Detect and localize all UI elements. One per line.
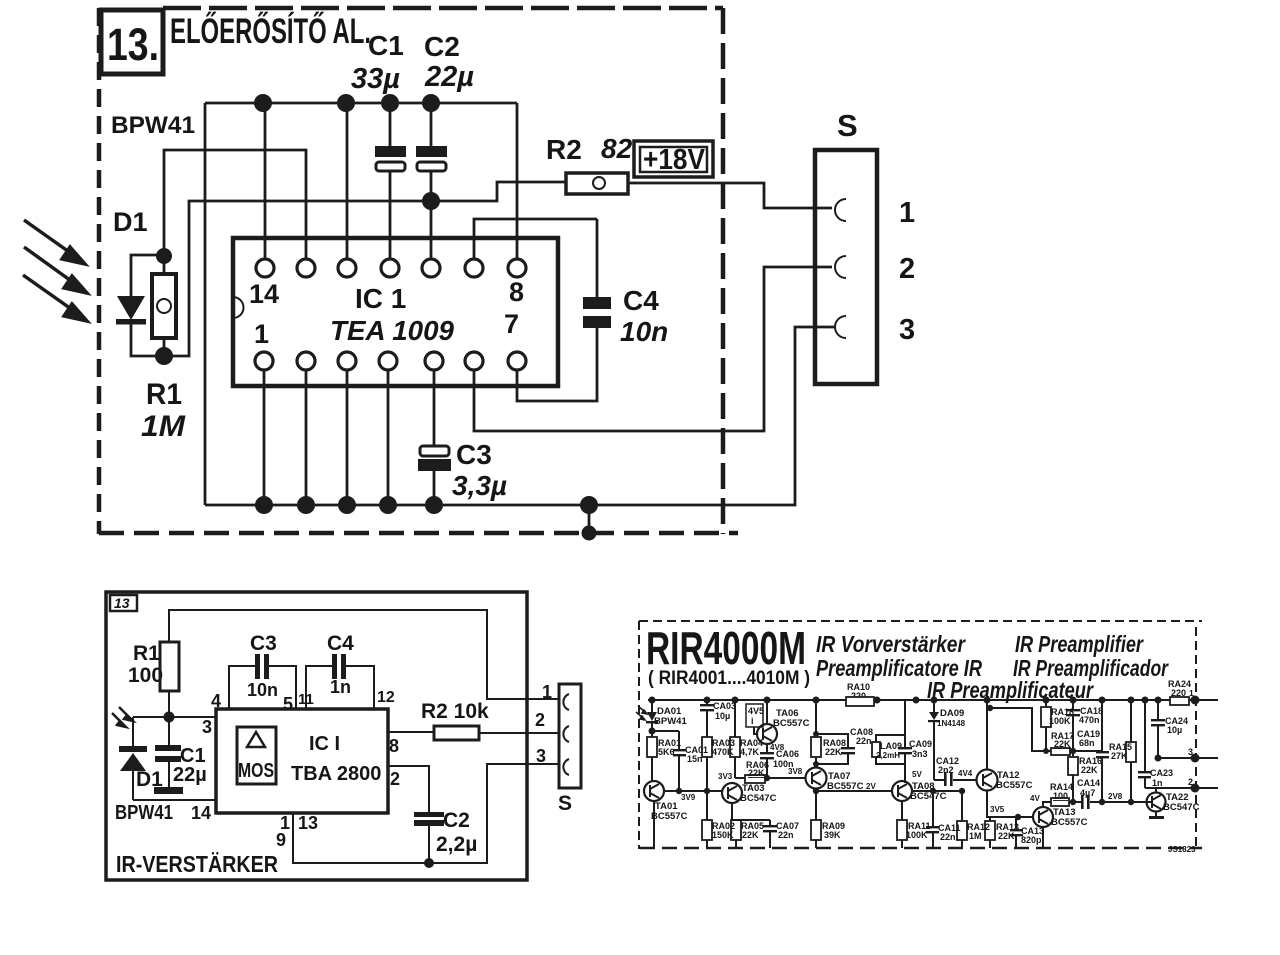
svg-text:BC557C: BC557C xyxy=(651,811,688,822)
svg-text:C3: C3 xyxy=(250,632,277,655)
photodiode D1 xyxy=(132,717,134,746)
resistor RA11 100K xyxy=(901,801,903,820)
svg-text:1: 1 xyxy=(1189,688,1194,698)
svg-text:BC547C: BC547C xyxy=(1163,802,1200,813)
ground bus with pin3 branch xyxy=(205,327,835,505)
svg-text:BPW41: BPW41 xyxy=(111,112,195,139)
svg-text:4V4: 4V4 xyxy=(958,769,973,778)
svg-text:14: 14 xyxy=(249,279,279,309)
svg-text:3n3: 3n3 xyxy=(912,749,928,759)
junction node below R1 xyxy=(155,347,173,365)
capacitor CA13 820p xyxy=(1015,817,1017,829)
transistor TA08 BC547C xyxy=(892,781,912,801)
resistor RA03 470K xyxy=(702,737,712,757)
svg-text:100: 100 xyxy=(128,664,163,687)
capacitor C2 2,2u xyxy=(414,812,444,817)
svg-text:15n: 15n xyxy=(687,754,703,764)
svg-text:2: 2 xyxy=(535,710,545,730)
connector pin 1 xyxy=(835,199,846,221)
wire pin9 to C4 xyxy=(474,219,597,259)
svg-text:2n2: 2n2 xyxy=(938,765,954,775)
svg-text:IR-VERSTÄRKER: IR-VERSTÄRKER xyxy=(116,851,278,877)
svg-text:ELŐERŐSÍTŐ AL.: ELŐERŐSÍTŐ AL. xyxy=(170,11,371,51)
svg-text:R2: R2 xyxy=(546,134,582,165)
emitter node TA07 xyxy=(815,788,817,820)
emitter TA12 to TA13 base xyxy=(987,790,1033,817)
svg-text:S: S xyxy=(558,792,572,815)
svg-text:C3: C3 xyxy=(456,439,492,470)
wire base line to pin 3 xyxy=(133,716,216,718)
transistor TA01 BC557C xyxy=(644,781,664,801)
connector pin 2 xyxy=(563,726,569,742)
wire D1 top to IC pin 13 xyxy=(164,150,306,259)
svg-text:10µ: 10µ xyxy=(1167,725,1182,735)
wire R1 bottom to R2 line xyxy=(164,182,566,356)
wire pin2 to C2 xyxy=(388,766,429,814)
svg-text:R1: R1 xyxy=(146,378,182,411)
svg-text:CA06: CA06 xyxy=(776,749,799,759)
ground bus junction dots xyxy=(255,496,273,514)
junction dot under R1 xyxy=(164,712,175,723)
svg-text:MOS: MOS xyxy=(238,760,274,782)
svg-text:13.: 13. xyxy=(107,19,159,70)
junction dots on rail xyxy=(254,94,272,112)
svg-text:BC557C: BC557C xyxy=(1051,817,1088,828)
svg-text:22n: 22n xyxy=(778,830,794,840)
transistor TA13 BC557C xyxy=(1033,807,1053,827)
transistor TA03 BC547C xyxy=(722,783,742,803)
capacitor CA19 68n label xyxy=(1070,748,1076,754)
node: top supply rail xyxy=(205,102,517,105)
photodiode DA01 BPW41 xyxy=(636,706,647,720)
svg-text:IR Vorverstärker: IR Vorverstärker xyxy=(816,631,966,657)
capacitor CA03 10u xyxy=(706,700,708,704)
svg-text:13: 13 xyxy=(298,813,318,833)
svg-text:C2: C2 xyxy=(443,809,470,832)
svg-text:IR Preamplifier: IR Preamplifier xyxy=(1015,631,1144,657)
svg-text:LA09: LA09 xyxy=(880,741,902,751)
emitter to RA05/CA07 xyxy=(732,803,770,820)
svg-text:22K: 22K xyxy=(825,747,842,757)
capacitor CA23 1n xyxy=(1144,700,1146,771)
svg-text:1: 1 xyxy=(542,682,552,702)
wire pin14 to rail xyxy=(264,103,267,259)
svg-text:4V: 4V xyxy=(1030,794,1040,803)
output pin 1 xyxy=(1191,696,1200,705)
svg-text:3,3µ: 3,3µ xyxy=(452,470,507,501)
base bus to TA08 xyxy=(816,790,892,792)
connector pin 1 xyxy=(563,694,569,710)
capacitor CA18 470n xyxy=(1072,700,1074,709)
svg-text:DA09: DA09 xyxy=(940,708,964,719)
IC1 TEA1009 body xyxy=(233,238,558,386)
svg-text:1n: 1n xyxy=(330,677,351,697)
resistor RA18 100K xyxy=(1045,700,1047,707)
svg-text:22n: 22n xyxy=(856,736,872,746)
svg-text:1: 1 xyxy=(254,319,269,349)
svg-text:1n: 1n xyxy=(1152,778,1163,788)
figure number box 13. xyxy=(101,10,163,74)
svg-text:13: 13 xyxy=(114,595,130,611)
capacitor CA19 body xyxy=(1101,700,1103,751)
svg-text:+18V: +18V xyxy=(643,144,706,176)
svg-text:2,2mH: 2,2mH xyxy=(876,751,900,760)
svg-text:39K: 39K xyxy=(824,830,841,840)
resistor RA15 27K xyxy=(1130,700,1132,742)
wire TA08 to bias xyxy=(912,790,962,792)
connector pin 3 xyxy=(563,759,569,775)
capacitor CA06 100n xyxy=(766,744,768,752)
svg-text:R2 10k: R2 10k xyxy=(421,700,489,723)
svg-text:22K: 22K xyxy=(742,830,759,840)
transistor TA22 BC547C xyxy=(1147,793,1166,812)
wire left vertical (rail to ground bus) xyxy=(204,103,207,505)
svg-text:C4: C4 xyxy=(327,632,354,655)
transistor TA06 BC557C xyxy=(757,724,777,744)
svg-text:3V9: 3V9 xyxy=(681,793,696,802)
capacitor CA08 22n bypass xyxy=(816,734,848,747)
svg-text:100K: 100K xyxy=(1049,716,1071,726)
svg-text:10µ: 10µ xyxy=(715,711,730,721)
svg-text:3: 3 xyxy=(536,746,546,766)
svg-text:CA23: CA23 xyxy=(1150,768,1173,778)
resistor RA02 150K xyxy=(706,791,708,820)
resistor RA17 22K xyxy=(990,708,1051,751)
svg-text:CA03: CA03 xyxy=(713,701,736,711)
capacitor CA01 15n xyxy=(678,731,680,749)
svg-text:11: 11 xyxy=(298,691,314,708)
svg-text:22K: 22K xyxy=(748,768,765,778)
transistor TA12 BC557C xyxy=(977,770,998,791)
resistor RA14 100 xyxy=(1043,802,1051,807)
capacitor C3 xyxy=(420,446,449,456)
svg-text:BPW41: BPW41 xyxy=(654,716,687,727)
svg-text:2V8: 2V8 xyxy=(1108,792,1123,801)
IC bottom pin circles xyxy=(255,352,526,370)
ground stub to shield xyxy=(588,505,591,533)
svg-text:IC 1: IC 1 xyxy=(355,283,406,314)
resistor RA04 4,7K xyxy=(734,700,736,737)
svg-text:1: 1 xyxy=(899,197,915,229)
resistor RA06 22K xyxy=(735,777,745,779)
inductor LA09 2,2mH tank xyxy=(876,700,905,742)
svg-text:C4: C4 xyxy=(623,285,659,316)
resistor RA16 22K xyxy=(1068,757,1078,775)
IC top pin circles xyxy=(256,259,526,277)
svg-text:9: 9 xyxy=(276,830,286,850)
wire pin10 to R2 line xyxy=(430,201,433,259)
ground rail / bottom dashed xyxy=(640,847,1202,849)
svg-text:33µ: 33µ xyxy=(351,63,400,95)
svg-text:i: i xyxy=(751,716,754,726)
junction node above R1 xyxy=(156,248,172,264)
svg-text:14: 14 xyxy=(191,803,211,823)
base bus wire xyxy=(664,790,722,792)
svg-text:22n: 22n xyxy=(940,832,956,842)
svg-text:D1: D1 xyxy=(113,207,148,237)
svg-text:TEA 1009: TEA 1009 xyxy=(330,315,454,346)
wire to CA01 xyxy=(652,730,679,732)
svg-text:22K: 22K xyxy=(1081,765,1098,775)
connector S body xyxy=(559,684,581,788)
svg-text:3V8: 3V8 xyxy=(788,767,803,776)
svg-text:BC547C: BC547C xyxy=(910,791,947,802)
svg-text:1M: 1M xyxy=(141,410,186,443)
svg-text:IC I: IC I xyxy=(309,733,340,755)
svg-text:C2: C2 xyxy=(424,31,460,62)
svg-text:CA14: CA14 xyxy=(1077,778,1100,788)
resistor R1 xyxy=(163,256,166,274)
resistor RA01 5K6 xyxy=(647,737,657,757)
svg-text:3V3: 3V3 xyxy=(718,772,733,781)
node: top rail xyxy=(169,610,559,699)
svg-text:2: 2 xyxy=(1188,777,1193,787)
resistor RA13 22K xyxy=(989,817,991,821)
svg-text:CA09: CA09 xyxy=(909,739,932,749)
svg-text:S: S xyxy=(837,108,858,143)
output pin 3 xyxy=(1158,757,1218,759)
voltage box 4V5 xyxy=(746,704,763,727)
svg-text:22K: 22K xyxy=(1054,739,1071,749)
resistor RA05 22K xyxy=(731,820,741,840)
svg-text:C1: C1 xyxy=(368,30,404,61)
dashed frame xyxy=(639,621,1202,849)
svg-text:3: 3 xyxy=(899,314,915,346)
dashed shield border xyxy=(99,8,738,534)
svg-text:1M: 1M xyxy=(969,831,982,841)
svg-text:100K: 100K xyxy=(906,830,928,840)
connector pin 3 xyxy=(835,316,846,338)
photodiode arrows xyxy=(112,707,133,727)
output pin 2 xyxy=(1145,787,1218,789)
wire pin8 to rail end xyxy=(516,103,519,259)
svg-text:3: 3 xyxy=(202,717,212,737)
junction dot C2 bottom xyxy=(422,192,440,210)
svg-text:RIR4000M: RIR4000M xyxy=(646,622,806,674)
capacitor CA14 4u7 xyxy=(1081,795,1084,809)
svg-text:3V5: 3V5 xyxy=(990,805,1005,814)
svg-text:3: 3 xyxy=(1188,747,1193,757)
capacitor CA12 2n2 xyxy=(934,779,944,781)
svg-text:68n: 68n xyxy=(1079,738,1095,748)
wire bottom to pin 14 xyxy=(133,799,216,801)
resistor RA08 22K xyxy=(815,700,817,737)
MOS symbol box xyxy=(237,727,276,784)
svg-text:22µ: 22µ xyxy=(424,61,474,93)
svg-text:5V: 5V xyxy=(912,770,922,779)
connector S body xyxy=(815,150,877,384)
wire pin6(bottom) to connector pin2 xyxy=(474,267,832,431)
resistor RA09 39K xyxy=(811,820,821,840)
supply rail xyxy=(648,699,846,701)
svg-text:4µ7: 4µ7 xyxy=(1080,788,1095,798)
svg-text:27K: 27K xyxy=(1111,751,1128,761)
svg-text:2: 2 xyxy=(899,253,915,285)
figure number box 13 xyxy=(110,595,137,611)
svg-text:8: 8 xyxy=(389,736,399,756)
light arrows xyxy=(23,220,87,321)
photodiode D1 xyxy=(131,255,164,296)
svg-text:( RIR4001....4010M ): ( RIR4001....4010M ) xyxy=(648,668,810,689)
connector pin 2 xyxy=(835,256,846,278)
svg-text:470n: 470n xyxy=(1079,715,1100,725)
wire R2 to connector pin1 xyxy=(628,183,832,208)
capacitor CA24 10u xyxy=(1157,700,1159,719)
svg-text:10n: 10n xyxy=(247,680,278,700)
rail junction dots xyxy=(649,697,1162,704)
svg-text:4,7K: 4,7K xyxy=(740,747,760,757)
wire pins 1,13,9 bottom loop to pin3 of S xyxy=(293,764,559,863)
svg-text:4V5: 4V5 xyxy=(748,706,764,716)
svg-text:5K6: 5K6 xyxy=(658,747,675,757)
capacitor CA11 22n xyxy=(932,791,934,826)
diode DA09 1N4148 xyxy=(933,700,935,712)
wire pin12 to rail xyxy=(346,103,349,259)
svg-text:TBA 2800: TBA 2800 xyxy=(291,763,381,785)
svg-text:82: 82 xyxy=(601,133,633,164)
capacitor CA07 22n xyxy=(769,820,771,825)
svg-text:1N4148: 1N4148 xyxy=(937,719,966,728)
svg-text:BPW41: BPW41 xyxy=(115,802,173,824)
svg-text:12: 12 xyxy=(377,689,395,706)
svg-text:5: 5 xyxy=(283,694,293,714)
capacitor CA09 3n3 xyxy=(904,735,906,747)
svg-text:4: 4 xyxy=(211,691,221,711)
enclosure box xyxy=(106,592,527,880)
svg-text:7: 7 xyxy=(504,309,519,339)
svg-text:100: 100 xyxy=(1053,791,1068,801)
svg-text:10n: 10n xyxy=(620,316,668,347)
+18V supply box xyxy=(634,141,713,177)
svg-text:820p: 820p xyxy=(1021,835,1042,845)
svg-text:R1: R1 xyxy=(133,642,160,665)
svg-text:8: 8 xyxy=(509,277,524,307)
svg-text:BC547C: BC547C xyxy=(740,793,777,804)
transistor TA07 BC557C xyxy=(806,768,827,789)
svg-text:BC557C: BC557C xyxy=(996,780,1033,791)
svg-text:2: 2 xyxy=(390,769,400,789)
capacitor C1 22u xyxy=(168,717,170,746)
bottom pin wires xyxy=(263,370,266,505)
svg-text:2,2µ: 2,2µ xyxy=(436,833,477,856)
resistor RA12 1M xyxy=(961,791,963,821)
svg-text:BC557C: BC557C xyxy=(773,718,810,729)
svg-text:22µ: 22µ xyxy=(173,764,207,786)
IC I TBA2800 body xyxy=(216,709,388,813)
svg-text:JS1823: JS1823 xyxy=(1168,845,1196,854)
svg-text:2V: 2V xyxy=(866,782,876,791)
